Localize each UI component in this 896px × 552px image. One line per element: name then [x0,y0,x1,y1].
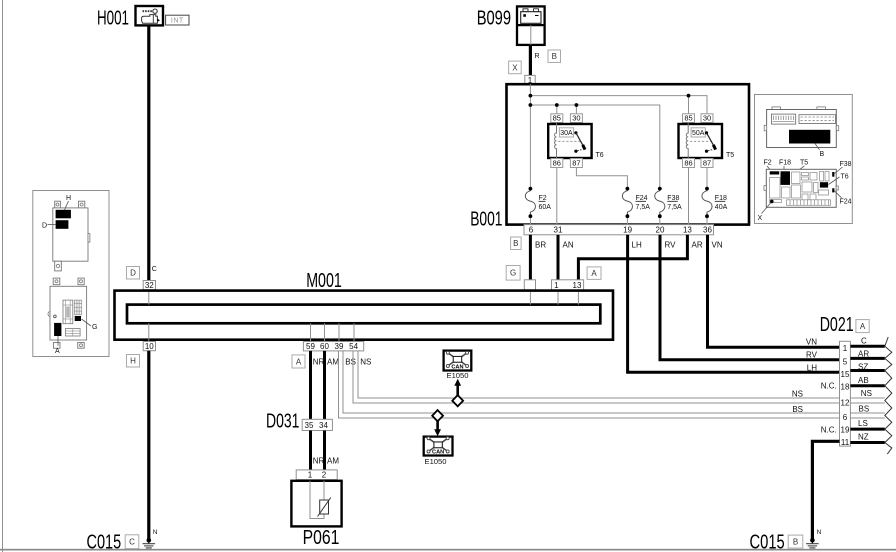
fuse slots [770,172,831,206]
code box D [127,267,140,280]
connector G cavity (black) [75,316,81,321]
wire R battery feed [529,45,532,76]
svg-text:INT: INT [171,18,184,25]
svg-text:B001: B001 [470,209,502,231]
svg-text:15: 15 [841,370,850,379]
svg-text:T5: T5 [800,160,808,167]
wire AN [557,235,560,280]
svg-text:BS: BS [792,405,803,414]
arrow to CAN node E1050 upper [454,379,461,396]
harness continuation zigzag [885,337,892,454]
svg-text:NR: NR [313,457,325,466]
code box A (M001 bottom) [292,355,305,368]
M001 internal lead 60 [324,323,326,341]
svg-text:NZ: NZ [858,433,869,442]
battery B099 [517,6,545,45]
svg-text:13: 13 [683,226,692,235]
wire NS pair right of D021 [850,397,884,399]
T5 87 to F18 [706,168,708,189]
D031 pins 35 34 [302,419,332,430]
wire AB right [850,384,884,387]
svg-text:86: 86 [553,159,561,168]
fuse F38 7,5A [655,187,682,218]
svg-text:D: D [42,222,47,229]
fuse layout labels F2 F18 T5 [764,160,809,177]
svg-text:M001: M001 [306,270,342,292]
svg-text:19: 19 [841,426,850,435]
label A with leader [55,336,60,355]
INT tag [166,15,189,25]
svg-text:86: 86 [684,159,692,168]
lower view hatched block [74,300,81,315]
wire LS right [850,428,884,431]
P061 pins 1 2 [296,470,337,480]
svg-text:B: B [513,239,518,248]
svg-text:C015: C015 [750,532,785,552]
wire C right [850,345,884,348]
code box X [509,61,522,74]
branch to T6 pin 30 [575,105,577,114]
label D with leader [42,222,56,229]
svg-text:LS: LS [858,419,868,428]
F24 to pin 19 [626,216,628,224]
svg-text:D031: D031 [266,410,299,432]
svg-text:40A: 40A [715,204,728,211]
svg-text:60: 60 [320,342,329,351]
svg-text:NS: NS [360,357,371,366]
M001 inner connector bar [127,305,600,324]
wire LH [628,235,840,372]
T6 86 to pin 31 [556,168,558,225]
connector D cavity (black) [56,220,69,229]
svg-text:30: 30 [572,114,580,123]
wire N to C015 left [147,351,150,541]
wire H001 to M001 pin 32 [147,25,150,280]
svg-text:LH: LH [632,240,642,249]
CAN junction on BS line [432,410,443,421]
fuse F2 position (black) [770,171,780,174]
svg-text:X: X [512,63,518,72]
code box B (C015 right) [788,535,803,548]
wire VN [708,235,840,347]
svg-text:LH: LH [807,363,817,372]
svg-text:2: 2 [322,471,327,480]
fusebox B001 outline [507,84,750,224]
M001 internal lead 59 [310,323,312,341]
svg-text:CAN: CAN [451,364,463,370]
svg-text:N: N [817,529,822,536]
svg-text:T6: T6 [596,152,604,159]
svg-text:H001: H001 [97,8,129,30]
connector A cavity (black) [54,323,61,336]
fuse F18 40A [702,187,728,218]
wire RV [660,235,840,360]
svg-text:1: 1 [843,344,848,353]
svg-text:E1050: E1050 [447,371,469,380]
svg-text:NS: NS [792,390,803,399]
body computer M001 outline [115,291,614,340]
svg-text:AM: AM [327,457,339,466]
wire BS pair right line [343,351,840,413]
connector body upper view [53,201,90,271]
page bottom border line [0,549,896,551]
svg-text:B: B [552,52,557,61]
svg-text:A: A [591,269,597,278]
svg-text:6: 6 [529,226,534,235]
svg-text:1: 1 [554,281,559,290]
wire AR [578,235,687,280]
svg-text:85: 85 [553,114,561,123]
svg-text:A: A [296,357,302,366]
right fusebox reference box [755,95,853,224]
CAN node E1050 upper [444,351,472,380]
CAN junction on NS line [452,395,463,406]
cover label window (black) [789,130,830,144]
svg-text:1: 1 [308,471,313,480]
label B with leader [815,144,825,158]
svg-text:11: 11 [841,438,850,447]
M001 internal lead pin10 [148,323,150,341]
label T6 with leader [829,173,849,184]
wire SZ right [850,369,884,372]
wire BR [529,235,532,280]
M001 bottom pins 59 60 39 54 [303,342,363,352]
CAN node E1050 lower [424,437,453,467]
svg-text:7,5A: 7,5A [636,204,651,211]
svg-text:18: 18 [841,383,850,392]
svg-text:H: H [130,357,136,366]
svg-text:G: G [92,324,97,331]
svg-text:F2: F2 [764,160,772,167]
relay T6 [548,114,604,168]
M001 internal lead 39 [338,323,340,341]
code box A (M001 top) [587,267,601,280]
svg-text:CAN: CAN [432,449,444,455]
svg-text:AM: AM [327,357,339,366]
label G with leader [82,319,98,331]
code box A (D021) [856,320,869,333]
svg-text:N.C.: N.C. [821,381,837,390]
pin 1 (B001 entry) [525,75,535,85]
svg-text:NS: NS [861,389,872,398]
right wire labels at D021 [858,336,872,441]
fuse F2 60A [525,187,551,218]
svg-text:B: B [820,151,825,158]
svg-text:B: B [793,538,798,547]
svg-text:X: X [758,215,763,222]
M001 internal lead BR [529,292,531,305]
svg-text:BS: BS [859,405,870,414]
connector H cavity (black) [56,210,71,219]
T6 87 to F24 [576,168,627,189]
svg-text:VN: VN [806,337,817,346]
svg-text:10: 10 [145,342,154,351]
wire BS pair left line [339,351,840,418]
svg-text:NR: NR [313,357,325,366]
svg-text:F24: F24 [840,198,852,205]
branch to T5 pin 85 [688,96,690,114]
left connector reference box [33,191,109,357]
cover connector block [771,114,795,124]
svg-text:39: 39 [335,342,344,351]
fuse F18 position (black) [781,171,791,185]
wire NS pair right of D021 b [850,402,884,404]
svg-text:31: 31 [554,226,563,235]
M001 internal lead pin32 [148,292,150,305]
svg-text:BR: BR [535,240,546,249]
B001 output pin row [524,225,714,235]
svg-text:36: 36 [703,226,712,235]
svg-text:60A: 60A [539,204,552,211]
svg-text:AR: AR [692,240,703,249]
ignition switch H001 icon [136,6,164,25]
svg-text:A: A [860,322,866,331]
fuel level sensor P061 [291,481,341,527]
svg-text:D: D [130,269,136,278]
F2 to pin 6 [529,216,531,224]
M001 top entry (BR) [524,280,535,290]
F38 to pin 20 [659,216,661,224]
junction dots on B001 buses [529,94,691,107]
lower view centre detail [54,300,73,324]
wire NZ to C015 right [812,441,839,540]
M001 top pins 1 13 [552,280,584,290]
arrow to CAN node E1050 lower [434,421,441,436]
label H with leader [65,195,72,210]
svg-text:6: 6 [843,413,848,422]
svg-text:19: 19 [623,226,632,235]
svg-text:13: 13 [573,281,582,290]
svg-text:12: 12 [841,398,850,407]
fusebox layout body [764,169,838,207]
wire NS pair right line [358,351,840,398]
label F24 with leader [835,191,852,205]
svg-text:34: 34 [319,421,328,430]
svg-text:N.C.: N.C. [821,425,837,434]
branch to T6 pin 85 [556,105,558,114]
code box C [125,535,139,549]
svg-text:5: 5 [843,358,848,367]
B001 bus from pin 1 [529,84,531,188]
svg-text:20: 20 [656,226,665,235]
ground C015 right [806,529,822,548]
svg-text:P061: P061 [303,527,340,549]
svg-text:F38: F38 [840,161,852,168]
svg-text:C: C [129,538,135,547]
svg-text:A: A [55,348,60,355]
wire BS pair right of D021 b [850,417,884,419]
svg-text:T6: T6 [841,173,849,180]
svg-text:54: 54 [349,342,358,351]
wire NZ right [850,441,884,444]
svg-text:AN: AN [563,240,574,249]
svg-text:B099: B099 [477,8,511,30]
svg-text:AB: AB [858,376,869,385]
svg-text:7,5A: 7,5A [667,204,682,211]
svg-text:VN: VN [712,240,723,249]
fuse F38 position (black) [832,172,834,177]
fusebox cover top view [764,107,839,148]
pin 10 [143,342,155,352]
svg-text:E1050: E1050 [425,457,447,466]
svg-text:N: N [153,529,158,536]
svg-text:50A: 50A [692,130,705,137]
cover dashed strip [799,115,836,124]
svg-text:C: C [152,266,157,273]
svg-text:87: 87 [572,159,580,168]
wire NR upper [309,351,312,419]
svg-text:32: 32 [145,281,154,290]
F18 to pin 36 [706,216,708,224]
stud X position (black dot) [770,200,774,204]
wire AR right [850,357,884,360]
left wire labels at D021 [792,337,837,434]
relay T6 position (black) [820,182,828,187]
code box H [127,355,140,368]
svg-text:87: 87 [703,159,711,168]
svg-text:85: 85 [684,114,692,123]
svg-text:59: 59 [306,342,315,351]
wire NS pair left line [353,351,840,403]
code box G [506,266,520,281]
svg-text:H: H [66,195,71,202]
wire AM lower [323,431,326,470]
svg-text:F18: F18 [779,160,791,167]
svg-text:C: C [861,336,867,345]
svg-text:30A: 30A [560,130,573,137]
code box B (M001 side) [511,237,521,250]
svg-text:35: 35 [305,421,314,430]
M001 internal lead 1 [557,292,559,305]
svg-text:G: G [510,269,516,278]
svg-text:R: R [535,53,540,60]
relay T5 [679,114,735,168]
B001 top bus to T5 [530,96,707,114]
B001 second bus to T6/F38 [530,105,659,189]
wire BS pair right of D021 [850,412,884,414]
svg-text:RV: RV [806,350,818,359]
wire AM upper [323,351,326,419]
svg-text:C015: C015 [87,531,122,552]
ground C015 left [143,529,158,548]
T5 86 to pin 13 [688,168,690,225]
wire NR lower [309,431,312,470]
svg-text:D021: D021 [820,314,854,336]
connector strip D021 [840,341,851,446]
label F38 with leader [834,161,852,174]
fuse F24 position (black) [832,188,834,192]
M001 internal lead 54 [353,323,355,341]
svg-text:T5: T5 [726,152,734,159]
pin 32 [143,281,155,291]
svg-text:BS: BS [345,357,356,366]
M001 internal lead 13 [577,292,579,305]
svg-text:RV: RV [665,240,677,249]
connector body lower view [48,278,87,348]
code box B (battery) [548,50,561,63]
page left border line [2,0,4,552]
label X with leader [758,203,771,222]
svg-text:30: 30 [703,114,711,123]
lower view terminal table [66,329,81,336]
fuse F24 7,5A [622,187,650,218]
